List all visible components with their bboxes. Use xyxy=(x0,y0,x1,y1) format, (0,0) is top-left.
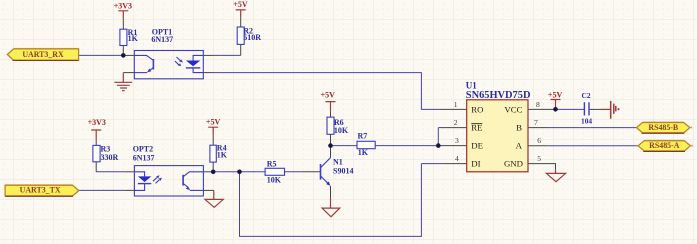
svg-text:UART3_RX: UART3_RX xyxy=(22,50,64,59)
svg-text:UART3_TX: UART3_TX xyxy=(20,185,61,194)
svg-text:+5V: +5V xyxy=(548,91,563,100)
svg-text:+3V3: +3V3 xyxy=(88,118,106,127)
svg-text:DE: DE xyxy=(471,141,483,151)
svg-text:C2: C2 xyxy=(582,91,591,100)
svg-text:GND: GND xyxy=(504,159,523,169)
svg-text:A: A xyxy=(516,141,523,151)
svg-text:1K: 1K xyxy=(128,34,139,43)
svg-text:6: 6 xyxy=(537,136,541,145)
svg-text:5: 5 xyxy=(537,154,541,163)
svg-text:RS485-B: RS485-B xyxy=(648,123,679,132)
svg-text:510R: 510R xyxy=(243,33,261,42)
svg-text:RS485-A: RS485-A xyxy=(649,141,680,150)
svg-text:1K: 1K xyxy=(358,148,369,157)
svg-text:2: 2 xyxy=(454,118,458,127)
svg-text:7: 7 xyxy=(534,118,538,127)
svg-text:104: 104 xyxy=(581,117,592,126)
svg-text:8: 8 xyxy=(536,100,540,109)
svg-text:R5: R5 xyxy=(267,160,277,169)
svg-text:VCC: VCC xyxy=(504,104,522,114)
svg-text:330R: 330R xyxy=(101,153,119,162)
svg-text:10K: 10K xyxy=(267,175,282,184)
svg-text:6N137: 6N137 xyxy=(133,153,155,162)
svg-text:10K: 10K xyxy=(334,126,349,135)
svg-text:B: B xyxy=(516,123,522,133)
svg-text:6N137: 6N137 xyxy=(151,35,173,44)
svg-text:RO: RO xyxy=(471,104,483,114)
svg-text:1K: 1K xyxy=(217,150,228,159)
svg-text:+5V: +5V xyxy=(321,90,336,99)
svg-text:+5V: +5V xyxy=(233,0,248,9)
svg-text:N1: N1 xyxy=(333,157,343,166)
svg-text:OPT2: OPT2 xyxy=(133,145,153,154)
svg-text:3: 3 xyxy=(455,136,459,145)
svg-text:U1: U1 xyxy=(466,81,477,91)
svg-text:R7: R7 xyxy=(358,131,368,140)
svg-text:+5V: +5V xyxy=(206,117,221,126)
svg-text:S9014: S9014 xyxy=(333,167,353,176)
svg-text:+3V3: +3V3 xyxy=(114,1,132,10)
svg-text:SN65HVD75D: SN65HVD75D xyxy=(466,90,531,101)
svg-text:DI: DI xyxy=(471,159,480,169)
svg-text:1: 1 xyxy=(454,100,458,109)
svg-text:4: 4 xyxy=(455,154,459,163)
